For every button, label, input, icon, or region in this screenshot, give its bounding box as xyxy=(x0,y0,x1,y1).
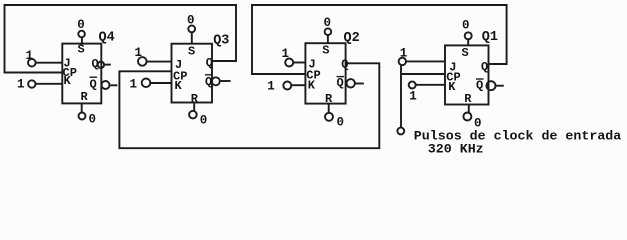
svg-text:1: 1 xyxy=(26,49,34,63)
wire Q3 to CP of FF4 (top-left feedback loop) xyxy=(5,5,237,73)
FF4 R terminal circle xyxy=(79,113,86,120)
svg-text:K: K xyxy=(175,79,183,93)
FF1 K input circle xyxy=(409,82,416,89)
FF1 Qbar output bubble xyxy=(487,81,496,90)
FF3 K input wire xyxy=(150,82,171,84)
clock input terminal circle xyxy=(397,128,404,135)
svg-text:K: K xyxy=(64,74,72,88)
svg-text:Q: Q xyxy=(90,78,97,92)
svg-text:S: S xyxy=(462,46,469,60)
FF3 K input circle xyxy=(142,79,151,88)
FF3 J input circle xyxy=(138,57,147,66)
clock input vertical wire xyxy=(400,66,402,128)
svg-text:Q: Q xyxy=(341,58,348,72)
FF4 R terminal stub xyxy=(81,103,83,112)
FF1 R terminal stub xyxy=(468,105,470,113)
svg-text:R: R xyxy=(81,90,89,104)
svg-text:Q3: Q3 xyxy=(213,34,229,49)
svg-text:S: S xyxy=(188,44,195,58)
svg-text:0: 0 xyxy=(337,116,345,130)
FF4 S terminal circle xyxy=(78,31,85,38)
FF2 S terminal circle xyxy=(325,28,332,35)
FF3 R terminal stub xyxy=(193,103,195,111)
FF1 S terminal circle xyxy=(465,32,472,39)
FF4 Q output bubble xyxy=(98,62,104,68)
svg-text:1: 1 xyxy=(409,90,417,104)
svg-text:Q2: Q2 xyxy=(344,31,360,46)
FF2 J input circle xyxy=(285,59,293,67)
flip-flop U2 (Q2) box xyxy=(305,43,345,103)
FF3 S terminal circle xyxy=(188,26,195,33)
svg-text:R: R xyxy=(191,92,199,106)
svg-text:1: 1 xyxy=(282,47,290,61)
FF2 K input wire xyxy=(291,84,305,86)
FF1 S terminal stub xyxy=(467,39,469,45)
flip-flop U3 (Q3) box xyxy=(172,44,213,103)
svg-text:0: 0 xyxy=(324,16,332,30)
FF2 K input circle xyxy=(283,82,291,90)
wire Q1 to CP of FF2 (top-right feedback loop) xyxy=(252,5,507,74)
clock input CP wire to FF1 xyxy=(401,73,445,75)
FF2 S terminal stub xyxy=(327,35,329,43)
svg-text:1: 1 xyxy=(130,78,138,92)
svg-text:Q4: Q4 xyxy=(99,31,115,46)
FF1 Qbar output stub xyxy=(496,85,504,87)
flip-flop U1 (Q1) box xyxy=(445,45,489,104)
svg-text:Q1: Q1 xyxy=(482,30,498,45)
svg-text:0: 0 xyxy=(89,112,97,126)
svg-text:S: S xyxy=(78,43,85,57)
wire Q2 to CP of FF3 (bottom feedback loop) xyxy=(119,63,379,148)
svg-text:R: R xyxy=(464,92,472,106)
svg-text:1: 1 xyxy=(400,47,408,61)
FF2 J input wire xyxy=(293,62,305,64)
FF3 S terminal stub xyxy=(191,32,193,43)
FF4 J input wire xyxy=(36,62,63,64)
svg-text:320 KHz: 320 KHz xyxy=(428,141,484,156)
svg-text:0: 0 xyxy=(200,113,208,127)
FF4 J input circle xyxy=(28,59,36,67)
svg-text:0: 0 xyxy=(77,18,85,32)
FF1 R terminal circle xyxy=(463,113,471,121)
svg-text:1: 1 xyxy=(17,78,25,92)
svg-text:K: K xyxy=(448,80,456,94)
FF1 J input circle xyxy=(399,58,406,65)
svg-text:Q: Q xyxy=(92,57,99,71)
FF4 Qbar output stub xyxy=(110,84,118,86)
svg-text:Q: Q xyxy=(476,78,483,92)
svg-text:Q: Q xyxy=(481,60,488,74)
FF1 K input wire xyxy=(416,84,445,86)
FF2 R terminal circle xyxy=(325,113,333,121)
FF3 Qbar output stub xyxy=(220,80,231,82)
svg-text:S: S xyxy=(322,44,329,58)
svg-text:Q: Q xyxy=(206,56,213,70)
FF3 Qbar output bubble xyxy=(212,77,220,85)
FF3 R terminal circle xyxy=(189,111,197,119)
FF2 Qbar output bubble xyxy=(347,79,355,87)
FF4 Qbar output bubble xyxy=(102,81,110,89)
FF4 K input wire xyxy=(36,83,63,85)
FF4 K input circle xyxy=(28,80,35,87)
svg-text:Q: Q xyxy=(337,76,344,90)
svg-text:R: R xyxy=(325,92,333,106)
FF2 Qbar output stub xyxy=(355,83,364,85)
svg-text:K: K xyxy=(308,78,316,92)
FF4 S terminal stub xyxy=(81,37,83,43)
svg-text:Q: Q xyxy=(205,75,212,89)
FF4 Q output stub xyxy=(104,64,111,66)
svg-text:1: 1 xyxy=(135,46,143,60)
FF1 J input wire xyxy=(406,60,445,62)
svg-text:1: 1 xyxy=(267,80,275,94)
svg-text:0: 0 xyxy=(462,18,470,32)
FF3 J input wire xyxy=(147,61,172,63)
flip-flop U4 (Q4) box xyxy=(62,44,101,104)
svg-text:0: 0 xyxy=(187,14,195,28)
FF2 R terminal stub xyxy=(328,104,330,113)
